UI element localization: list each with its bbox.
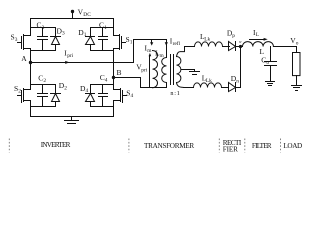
svg-text:1: 1 bbox=[104, 25, 107, 31]
svg-text:LOAD: LOAD bbox=[283, 142, 302, 150]
svg-text:2: 2 bbox=[18, 88, 21, 94]
svg-text:1: 1 bbox=[130, 40, 133, 46]
svg-text:o: o bbox=[296, 41, 299, 47]
svg-text:2: 2 bbox=[43, 78, 46, 84]
svg-text:Lk: Lk bbox=[206, 78, 212, 84]
svg-text:refl: refl bbox=[173, 40, 181, 47]
svg-text:1: 1 bbox=[84, 32, 87, 38]
svg-text:DC: DC bbox=[83, 12, 91, 18]
svg-text:n: n bbox=[236, 78, 239, 84]
svg-text:FIER: FIER bbox=[223, 146, 239, 154]
svg-text:3: 3 bbox=[62, 31, 65, 37]
svg-text:3: 3 bbox=[42, 25, 45, 31]
svg-text:3: 3 bbox=[15, 37, 18, 43]
svg-text:L: L bbox=[260, 47, 265, 56]
svg-text:L: L bbox=[256, 32, 259, 38]
svg-text:m: m bbox=[147, 48, 152, 54]
svg-text:B: B bbox=[117, 68, 122, 77]
svg-text:4: 4 bbox=[131, 93, 134, 99]
svg-text:4: 4 bbox=[105, 78, 108, 84]
svg-text:pri: pri bbox=[67, 53, 73, 59]
svg-text:o: o bbox=[266, 60, 269, 66]
svg-text:INVERTER: INVERTER bbox=[41, 141, 71, 149]
svg-text:TRANSFORMER: TRANSFORMER bbox=[144, 142, 195, 150]
svg-text:FILTER: FILTER bbox=[252, 142, 272, 150]
svg-text:2: 2 bbox=[64, 85, 67, 91]
svg-text:A: A bbox=[21, 54, 27, 63]
svg-text:p: p bbox=[232, 33, 235, 39]
svg-text:Lk: Lk bbox=[204, 37, 210, 43]
svg-text:n:1: n:1 bbox=[170, 90, 180, 97]
svg-text:w: w bbox=[239, 40, 242, 44]
svg-text:pri: pri bbox=[141, 68, 147, 74]
svg-text:4: 4 bbox=[86, 88, 89, 94]
